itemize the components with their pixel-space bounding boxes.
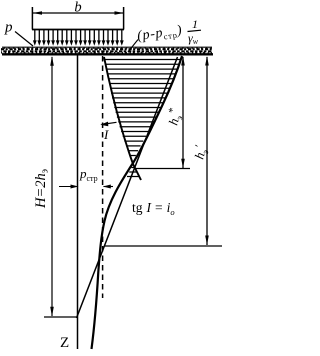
angle I arrow bbox=[102, 122, 117, 124]
svg-text:Z: Z bbox=[60, 335, 69, 351]
distributed load comb top bar bbox=[32, 29, 124, 31]
svg-text:H=2hэ: H=2hэ bbox=[33, 169, 51, 209]
svg-text:p: p bbox=[4, 20, 13, 36]
dimension b end bars bbox=[31, 7, 33, 30]
h3* tick bbox=[134, 168, 190, 170]
h3' dim line bbox=[206, 57, 208, 245]
p_str dim arrows bbox=[59, 186, 77, 188]
straight line tg I bbox=[77, 57, 178, 318]
svg-text:1: 1 bbox=[192, 17, 198, 31]
label (p-p_str) 1/gw bbox=[136, 23, 183, 45]
svg-text:I: I bbox=[103, 127, 109, 142]
head curve bbox=[92, 56, 183, 349]
dashed vertical line bbox=[102, 56, 104, 298]
H dim line bbox=[51, 57, 53, 316]
dimension b line bbox=[33, 11, 124, 15]
h3' tick bbox=[105, 245, 223, 247]
h3* dim line bbox=[182, 57, 184, 168]
epure left edge bbox=[104, 57, 141, 180]
H bottom tick bbox=[44, 316, 78, 318]
distributed load comb teeth bbox=[35, 30, 122, 42]
ground stipple bbox=[1, 48, 212, 53]
epure hatching bbox=[105, 60, 180, 177]
leader to strip corner bbox=[128, 40, 138, 53]
Z axis bbox=[77, 55, 79, 349]
ground bottom line bbox=[2, 53, 213, 55]
leader p bbox=[15, 32, 33, 47]
svg-text:b: b bbox=[74, 0, 81, 16]
ground top line bbox=[2, 46, 212, 48]
distributed load comb arrow tips bbox=[33, 40, 124, 45]
